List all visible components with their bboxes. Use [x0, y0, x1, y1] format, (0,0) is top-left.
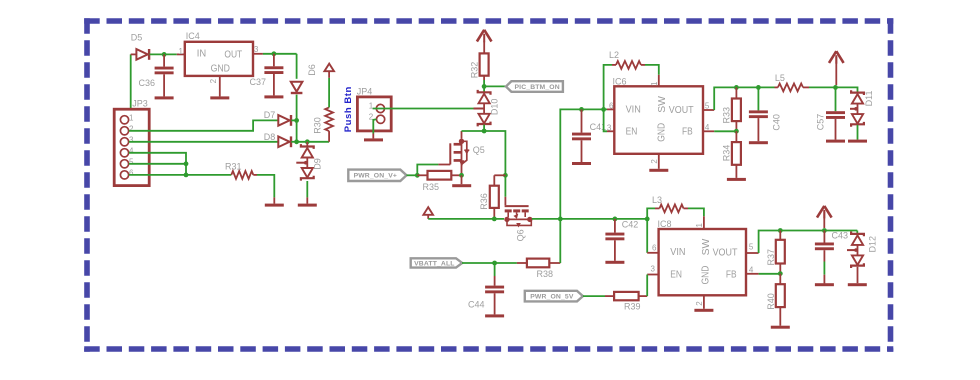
resistor R39	[614, 292, 640, 312]
node D7 cathode junction	[294, 118, 299, 123]
wire to Q5 gate	[417, 165, 438, 176]
diode D7	[264, 110, 297, 126]
svg-text:6: 6	[609, 102, 614, 111]
node R33-R34 junction	[734, 129, 739, 134]
svg-text:PIC_BTM_ON: PIC_BTM_ON	[514, 84, 559, 91]
node rail R38 junction	[558, 217, 563, 222]
svg-text:EN: EN	[670, 269, 682, 280]
resistor R33	[722, 87, 741, 131]
svg-text:VIN: VIN	[626, 104, 641, 115]
wire D5 cathode to IC4 IN	[150, 53, 177, 55]
flag VBATT_ALL	[411, 258, 463, 267]
capacitor C36	[139, 54, 174, 96]
resistor R36	[479, 175, 505, 219]
svg-text:VOUT: VOUT	[713, 248, 738, 259]
suppressor D12	[847, 231, 878, 269]
wire rail to IC6 VIN riser	[560, 109, 614, 218]
svg-text:D6: D6	[307, 64, 317, 76]
wire FB IC6	[714, 130, 736, 132]
svg-text:OUT: OUT	[224, 50, 242, 61]
connector JP3	[114, 99, 149, 186]
wire to D11	[836, 87, 858, 92]
node D8 cathode junction	[294, 139, 299, 144]
svg-text:IC4: IC4	[186, 31, 200, 41]
wire IC8 VOUT riser	[759, 231, 858, 254]
inductor L3	[647, 195, 704, 219]
wire rail left segment	[428, 218, 504, 220]
svg-text:1: 1	[129, 113, 134, 122]
svg-text:D7: D7	[264, 110, 276, 120]
svg-text:VOUT: VOUT	[669, 105, 694, 116]
svg-text:1: 1	[179, 47, 184, 56]
wire to Q6 gate	[504, 175, 506, 197]
wire flag to gate node	[407, 174, 418, 176]
svg-text:PWR_ON_5V: PWR_ON_5V	[530, 294, 574, 301]
capacitor C37	[250, 54, 284, 96]
node PIC_BTM_ON junction	[482, 84, 487, 89]
node R37 top junction	[778, 228, 783, 233]
pin 1 IC6 SW	[650, 75, 659, 87]
ground below IC6	[649, 169, 668, 172]
wire JP3 pin5	[129, 163, 186, 165]
svg-text:D11: D11	[864, 90, 874, 106]
resistor R38	[527, 259, 553, 280]
capacitor C41	[572, 109, 606, 162]
wire R38 to rail	[549, 219, 560, 263]
svg-text:Q5: Q5	[473, 145, 485, 155]
svg-text:5: 5	[705, 101, 710, 110]
svg-text:6: 6	[652, 243, 657, 252]
supply arrow above C57	[829, 51, 844, 85]
wire R39 to IC8 EN	[639, 275, 648, 297]
wire IC4 OUT net	[263, 54, 297, 79]
wire EN riser	[604, 109, 615, 131]
ground below Q5	[452, 184, 471, 187]
svg-text:D9: D9	[313, 158, 323, 170]
svg-text:R39: R39	[624, 302, 641, 312]
pin 6 IC6 VIN	[609, 102, 614, 111]
pin 4 IC6 FB	[703, 123, 714, 132]
IC6 box	[613, 77, 704, 154]
svg-text:3: 3	[254, 45, 259, 54]
svg-text:2: 2	[129, 124, 134, 133]
pin 3 IC6 EN	[607, 124, 612, 133]
svg-text:D10: D10	[490, 99, 500, 116]
node gate junction	[415, 173, 420, 178]
svg-text:R36: R36	[479, 193, 489, 210]
node R36 branch junction	[503, 173, 508, 178]
svg-text:3: 3	[607, 124, 612, 133]
svg-text:3: 3	[651, 265, 656, 274]
capacitor C43	[815, 231, 848, 284]
svg-text:4: 4	[749, 265, 754, 274]
svg-text:C57: C57	[815, 114, 825, 131]
wire R32 to node	[483, 76, 485, 87]
svg-text:6: 6	[129, 168, 134, 177]
svg-text:5: 5	[129, 157, 134, 166]
node rail C42 junction	[613, 217, 618, 222]
wire D7-D8 link	[296, 120, 298, 141]
pin 1 IC8 SW	[695, 216, 704, 229]
svg-text:D8: D8	[264, 132, 276, 142]
transistor Q2 pmos Q5	[438, 131, 484, 173]
capacitor C40	[749, 87, 781, 141]
resistor R30	[313, 107, 333, 141]
svg-text:SW: SW	[701, 238, 712, 255]
svg-text:D5: D5	[131, 32, 143, 42]
svg-text:C37: C37	[250, 77, 267, 87]
svg-text:SW: SW	[657, 95, 668, 112]
pin 2 IC4 GND stub	[209, 76, 220, 97]
svg-text:Push Btn: Push Btn	[343, 86, 354, 132]
ground below C41	[572, 162, 591, 165]
resistor R32	[469, 53, 488, 78]
flag PWR_ON_V+	[348, 170, 406, 181]
svg-text:R31: R31	[225, 161, 242, 171]
ground below C42	[605, 261, 624, 264]
svg-text:R38: R38	[537, 269, 554, 279]
svg-text:1: 1	[695, 223, 704, 228]
ground below R31	[265, 204, 284, 207]
wire supply to R32	[483, 42, 485, 54]
svg-text:VIN: VIN	[670, 247, 685, 258]
suppressor D9	[296, 142, 322, 181]
svg-text:C42: C42	[622, 219, 639, 229]
supply arrow above C43	[817, 206, 832, 228]
ground below C40	[749, 141, 768, 144]
frame border (dashed blue)	[84, 18, 893, 352]
pin 3 IC4	[253, 45, 263, 54]
wire flag to C44 node	[462, 262, 495, 264]
ground below IC8	[694, 309, 713, 312]
svg-text:2: 2	[650, 159, 659, 164]
svg-text:L3: L3	[652, 195, 662, 205]
svg-text:4: 4	[129, 146, 134, 155]
svg-text:R40: R40	[766, 293, 776, 310]
ground below R34	[727, 178, 746, 181]
wire drain net right down	[484, 131, 505, 175]
svg-text:R30: R30	[313, 117, 323, 134]
node D9 top junction	[305, 139, 310, 144]
wire JP3 pin2 to D7	[129, 120, 278, 130]
wire D6 to D7 node	[296, 95, 298, 121]
svg-text:R34: R34	[722, 145, 732, 162]
suppressor D11	[850, 90, 874, 127]
wire JP3 pin6 to R31	[129, 174, 231, 176]
wire D8 node to R30	[297, 141, 330, 143]
inductor L5	[775, 73, 836, 91]
svg-text:L2: L2	[609, 50, 619, 60]
node R35 right junction	[459, 173, 464, 178]
wire JP4 pin2 to ground	[373, 119, 376, 138]
node R36 bottom junction	[492, 217, 497, 222]
svg-text:IC6: IC6	[613, 77, 627, 87]
node Q5 drain junction	[482, 129, 487, 134]
suppressor D10	[474, 86, 500, 126]
wire D9 to ground	[306, 181, 308, 204]
connector JP4	[357, 87, 391, 131]
svg-text:EN: EN	[626, 127, 638, 138]
svg-text:JP4: JP4	[357, 87, 373, 97]
svg-text:2: 2	[209, 78, 218, 83]
svg-text:FB: FB	[682, 127, 693, 138]
diode D5	[131, 32, 150, 60]
svg-text:PWR_ON_V+: PWR_ON_V+	[354, 173, 397, 180]
svg-text:3: 3	[129, 135, 134, 144]
svg-text:VBATT_ALL: VBATT_ALL	[414, 260, 455, 267]
inductor L2	[604, 50, 659, 109]
node 5V output junction	[833, 85, 838, 90]
node pin5 junction	[184, 161, 189, 166]
wire D11 to ground	[857, 125, 859, 140]
wire flag to R39	[583, 295, 614, 297]
diode D6	[291, 64, 317, 94]
node L2 junction	[601, 107, 606, 112]
wire Q5 source to ground	[461, 175, 463, 184]
wire R31 to ground	[253, 175, 274, 204]
supply triangle at rail left	[423, 207, 433, 219]
wire pin5 to pin6 link	[185, 164, 187, 175]
pin 5 IC8 VOUT	[746, 243, 759, 253]
diode D8	[264, 132, 297, 147]
svg-text:R35: R35	[423, 182, 440, 192]
node junction at C37 top	[272, 51, 277, 56]
svg-text:IN: IN	[197, 49, 206, 60]
wire D10 to Q5 node	[483, 125, 485, 131]
node C43 junction	[822, 228, 827, 233]
ground below C44	[485, 314, 504, 317]
ground below D9	[298, 204, 317, 207]
pin 3 IC8 EN	[647, 265, 658, 275]
wire JP3 pin3 to D8	[129, 141, 278, 143]
resistor R37	[766, 231, 785, 274]
wire D12 to ground	[857, 267, 859, 283]
svg-text:GND: GND	[211, 63, 230, 74]
wire FB IC8	[759, 273, 781, 275]
svg-text:C40: C40	[771, 114, 781, 131]
resistor R34	[722, 131, 741, 178]
wire rail mid segment	[532, 218, 647, 220]
svg-text:C36: C36	[139, 78, 156, 88]
node C44 junction	[492, 261, 497, 266]
wire JP3 pin4 to pin5 net	[129, 153, 186, 164]
flag PIC_BTM_ON	[506, 81, 563, 92]
ground below C43	[815, 283, 834, 286]
wire JP4 pin1 to D10 mid	[373, 108, 474, 110]
pin 1 IC4	[177, 47, 185, 56]
ground below JP4	[364, 138, 383, 141]
wire JP3.1 to D5 anode	[129, 54, 137, 119]
op-amp U regulator IC4	[185, 31, 253, 76]
wire IC6 VOUT riser	[714, 87, 774, 110]
resistor R40	[766, 274, 785, 326]
pin 2 IC8 GND	[695, 295, 704, 309]
svg-text:Q6: Q6	[515, 229, 525, 241]
svg-text:R37: R37	[766, 249, 776, 266]
svg-text:GND: GND	[700, 266, 711, 285]
svg-text:4: 4	[705, 123, 710, 132]
node rail L3 junction	[645, 217, 650, 222]
supply arrow above R32	[477, 30, 492, 43]
node junction at C36 top	[162, 52, 167, 57]
svg-text:JP3: JP3	[132, 99, 148, 109]
ground below C37	[264, 95, 283, 98]
ground below D12	[848, 283, 867, 286]
pin 2 IC6 GND	[650, 154, 659, 169]
capacitor C57	[815, 87, 845, 139]
ground below D11	[848, 140, 867, 143]
wire drain net left	[462, 130, 485, 132]
flag PWR_ON_5V	[525, 291, 583, 302]
wire node to flag	[484, 85, 506, 87]
supply arrow above R30	[324, 64, 334, 72]
pin 5 IC6 VOUT	[703, 101, 714, 110]
wire rail to IC8 VIN	[647, 219, 658, 253]
wire to R38	[495, 262, 527, 264]
transistor Q6 nmos	[504, 197, 532, 242]
svg-text:2: 2	[695, 301, 704, 306]
ground below IC4	[210, 96, 229, 99]
svg-text:L5: L5	[775, 73, 785, 83]
svg-text:C44: C44	[468, 300, 485, 310]
resistor R31	[225, 161, 253, 179]
svg-text:5: 5	[749, 243, 754, 252]
node pin6 junction	[184, 173, 189, 178]
node C41 junction	[579, 107, 584, 112]
ground below R40	[771, 326, 790, 329]
svg-text:D12: D12	[868, 236, 878, 253]
node C40 junction	[756, 85, 761, 90]
ground below C57	[826, 140, 845, 143]
capacitor C44	[468, 263, 504, 314]
svg-text:R33: R33	[722, 107, 732, 124]
wire R30 to supply	[328, 71, 330, 107]
svg-text:R32: R32	[469, 62, 479, 79]
label Push Btn	[343, 86, 354, 132]
node R37-R40 junction	[778, 271, 783, 276]
svg-text:1: 1	[650, 81, 659, 86]
svg-text:C43: C43	[832, 231, 849, 241]
svg-text:GND: GND	[656, 123, 667, 142]
ground below C36	[155, 96, 174, 99]
node R33 top junction	[734, 85, 739, 90]
pin 4 IC8 FB	[746, 265, 759, 274]
resistor R35	[417, 171, 461, 192]
svg-text:IC8: IC8	[658, 219, 672, 229]
capacitor C42	[605, 219, 638, 261]
svg-text:FB: FB	[726, 269, 737, 280]
IC8 box	[658, 219, 747, 295]
